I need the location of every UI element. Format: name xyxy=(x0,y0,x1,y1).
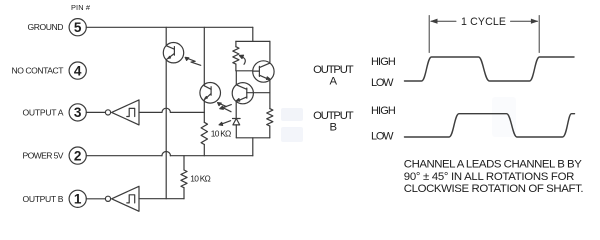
resistor R4 right 10K xyxy=(267,109,273,138)
buffer U2 hysteresis glyph xyxy=(127,195,135,203)
wire ground rail corner down to top bar xyxy=(252,27,254,41)
svg-text:5: 5 xyxy=(74,20,82,35)
buffer U2 input wire from pin1 xyxy=(86,198,105,200)
buffer U2 triangle xyxy=(112,186,139,211)
timing diagram xyxy=(313,16,583,196)
pin 3 circle xyxy=(69,104,86,121)
wire ground rail from pin5 xyxy=(86,26,253,28)
svg-text:A: A xyxy=(330,76,338,88)
wire output A line (buffer to hop) xyxy=(139,111,162,113)
buffer U1 input wire from pin3 xyxy=(86,111,105,113)
svg-text:LOW: LOW xyxy=(371,131,394,143)
waveform output A xyxy=(405,57,575,81)
svg-text:1: 1 xyxy=(74,192,82,207)
svg-text:NO CONTACT: NO CONTACT xyxy=(12,66,65,76)
svg-text:GROUND: GROUND xyxy=(28,22,64,32)
transistor Q4 xyxy=(232,83,253,104)
waveform output B xyxy=(405,114,575,137)
svg-text:10 KΩ: 10 KΩ xyxy=(190,174,211,184)
LED D1 xyxy=(233,119,241,138)
svg-text:3: 3 xyxy=(74,105,82,120)
svg-text:B: B xyxy=(330,121,338,133)
wire V3 top bar to Q3 collector xyxy=(269,41,271,63)
svg-text:10 KΩ: 10 KΩ xyxy=(211,128,232,138)
light arrow into Q1 xyxy=(185,57,201,65)
svg-text:POWER 5V: POWER 5V xyxy=(23,151,64,161)
svg-text:1 CYCLE: 1 CYCLE xyxy=(461,16,506,28)
svg-text:OUTPUT B: OUTPUT B xyxy=(23,194,64,204)
buffer U1 triangle xyxy=(112,100,139,125)
LED light arrow upper xyxy=(220,105,232,110)
svg-text:CHANNEL A LEADS CHANNEL B BY: CHANNEL A LEADS CHANNEL B BY xyxy=(404,159,582,171)
dimension tick left xyxy=(428,16,430,53)
dimension arrow left xyxy=(430,19,456,24)
resistor R2 top with adjust arrow xyxy=(233,41,245,70)
svg-text:2: 2 xyxy=(74,148,82,163)
resistor R1 10K (Q2 emitter to +5V line) xyxy=(201,113,207,156)
wire bottom bar of comparator block xyxy=(236,137,269,139)
wire V2 upper segment (rail to Q2 collector) xyxy=(203,27,205,86)
wire output A line (hop to Q2 emitter node) xyxy=(170,111,204,113)
wire V1 upper segment (pin5 rail to Q1 collector) xyxy=(165,27,167,45)
wire V3 Q3 emitter to R2 (with Q4 base tee) xyxy=(269,80,271,109)
phototransistor Q2 xyxy=(200,83,221,104)
LED light arrow lower xyxy=(219,121,231,126)
dimension tick right xyxy=(538,16,540,53)
wire V1 lower segment (Q1 emitter down to output B node) xyxy=(165,60,167,199)
svg-text:HIGH: HIGH xyxy=(371,56,396,68)
wire hop over V1 on output A line xyxy=(162,108,170,112)
svg-text:PIN #: PIN # xyxy=(71,3,91,12)
transistor Q3 xyxy=(253,61,274,82)
resistor R3 10K (power line to output B node) xyxy=(181,156,187,199)
pin 5 circle xyxy=(69,19,86,36)
svg-text:CLOCKWISE ROTATION OF SHAFT.: CLOCKWISE ROTATION OF SHAFT. xyxy=(404,183,584,195)
wire top bar of comparator block xyxy=(236,40,270,42)
phototransistor Q1 xyxy=(163,43,183,63)
pin 2 circle xyxy=(69,147,86,164)
wire hop over V1 on power line xyxy=(162,152,170,156)
svg-text:OUTPUT: OUTPUT xyxy=(313,110,354,122)
svg-text:4: 4 xyxy=(74,63,82,78)
buffer U1 bubble xyxy=(105,110,110,115)
dimension arrow right xyxy=(511,19,539,24)
svg-text:90° ± 45° IN ALL ROTATIONS FOR: 90° ± 45° IN ALL ROTATIONS FOR xyxy=(404,171,575,183)
wire power 5V line from pin2 xyxy=(86,155,162,157)
svg-text:OUTPUT A: OUTPUT A xyxy=(23,107,64,117)
svg-text:OUTPUT: OUTPUT xyxy=(313,64,354,76)
buffer U1 hysteresis glyph xyxy=(127,108,135,116)
wire Q4 collector up through base bar xyxy=(235,71,237,85)
wire Q2 emitter to output A junction xyxy=(203,100,205,113)
pin 1 circle xyxy=(69,190,86,207)
svg-text:LOW: LOW xyxy=(371,77,394,89)
wire power line (hop to right corner) xyxy=(170,155,252,157)
buffer U2 bubble xyxy=(105,196,110,201)
wire Q4 emitter to LED xyxy=(235,102,237,119)
wire output B line (buffer to R3 bottom) xyxy=(139,198,184,200)
light arrow into Q2 xyxy=(218,103,231,112)
pin 4 circle xyxy=(69,62,86,79)
wire Q4 base to V3 xyxy=(253,92,270,94)
svg-text:HIGH: HIGH xyxy=(371,105,396,117)
wire power line corner up to bottom bar xyxy=(252,138,254,156)
wire base bar to Q3 xyxy=(236,70,253,72)
